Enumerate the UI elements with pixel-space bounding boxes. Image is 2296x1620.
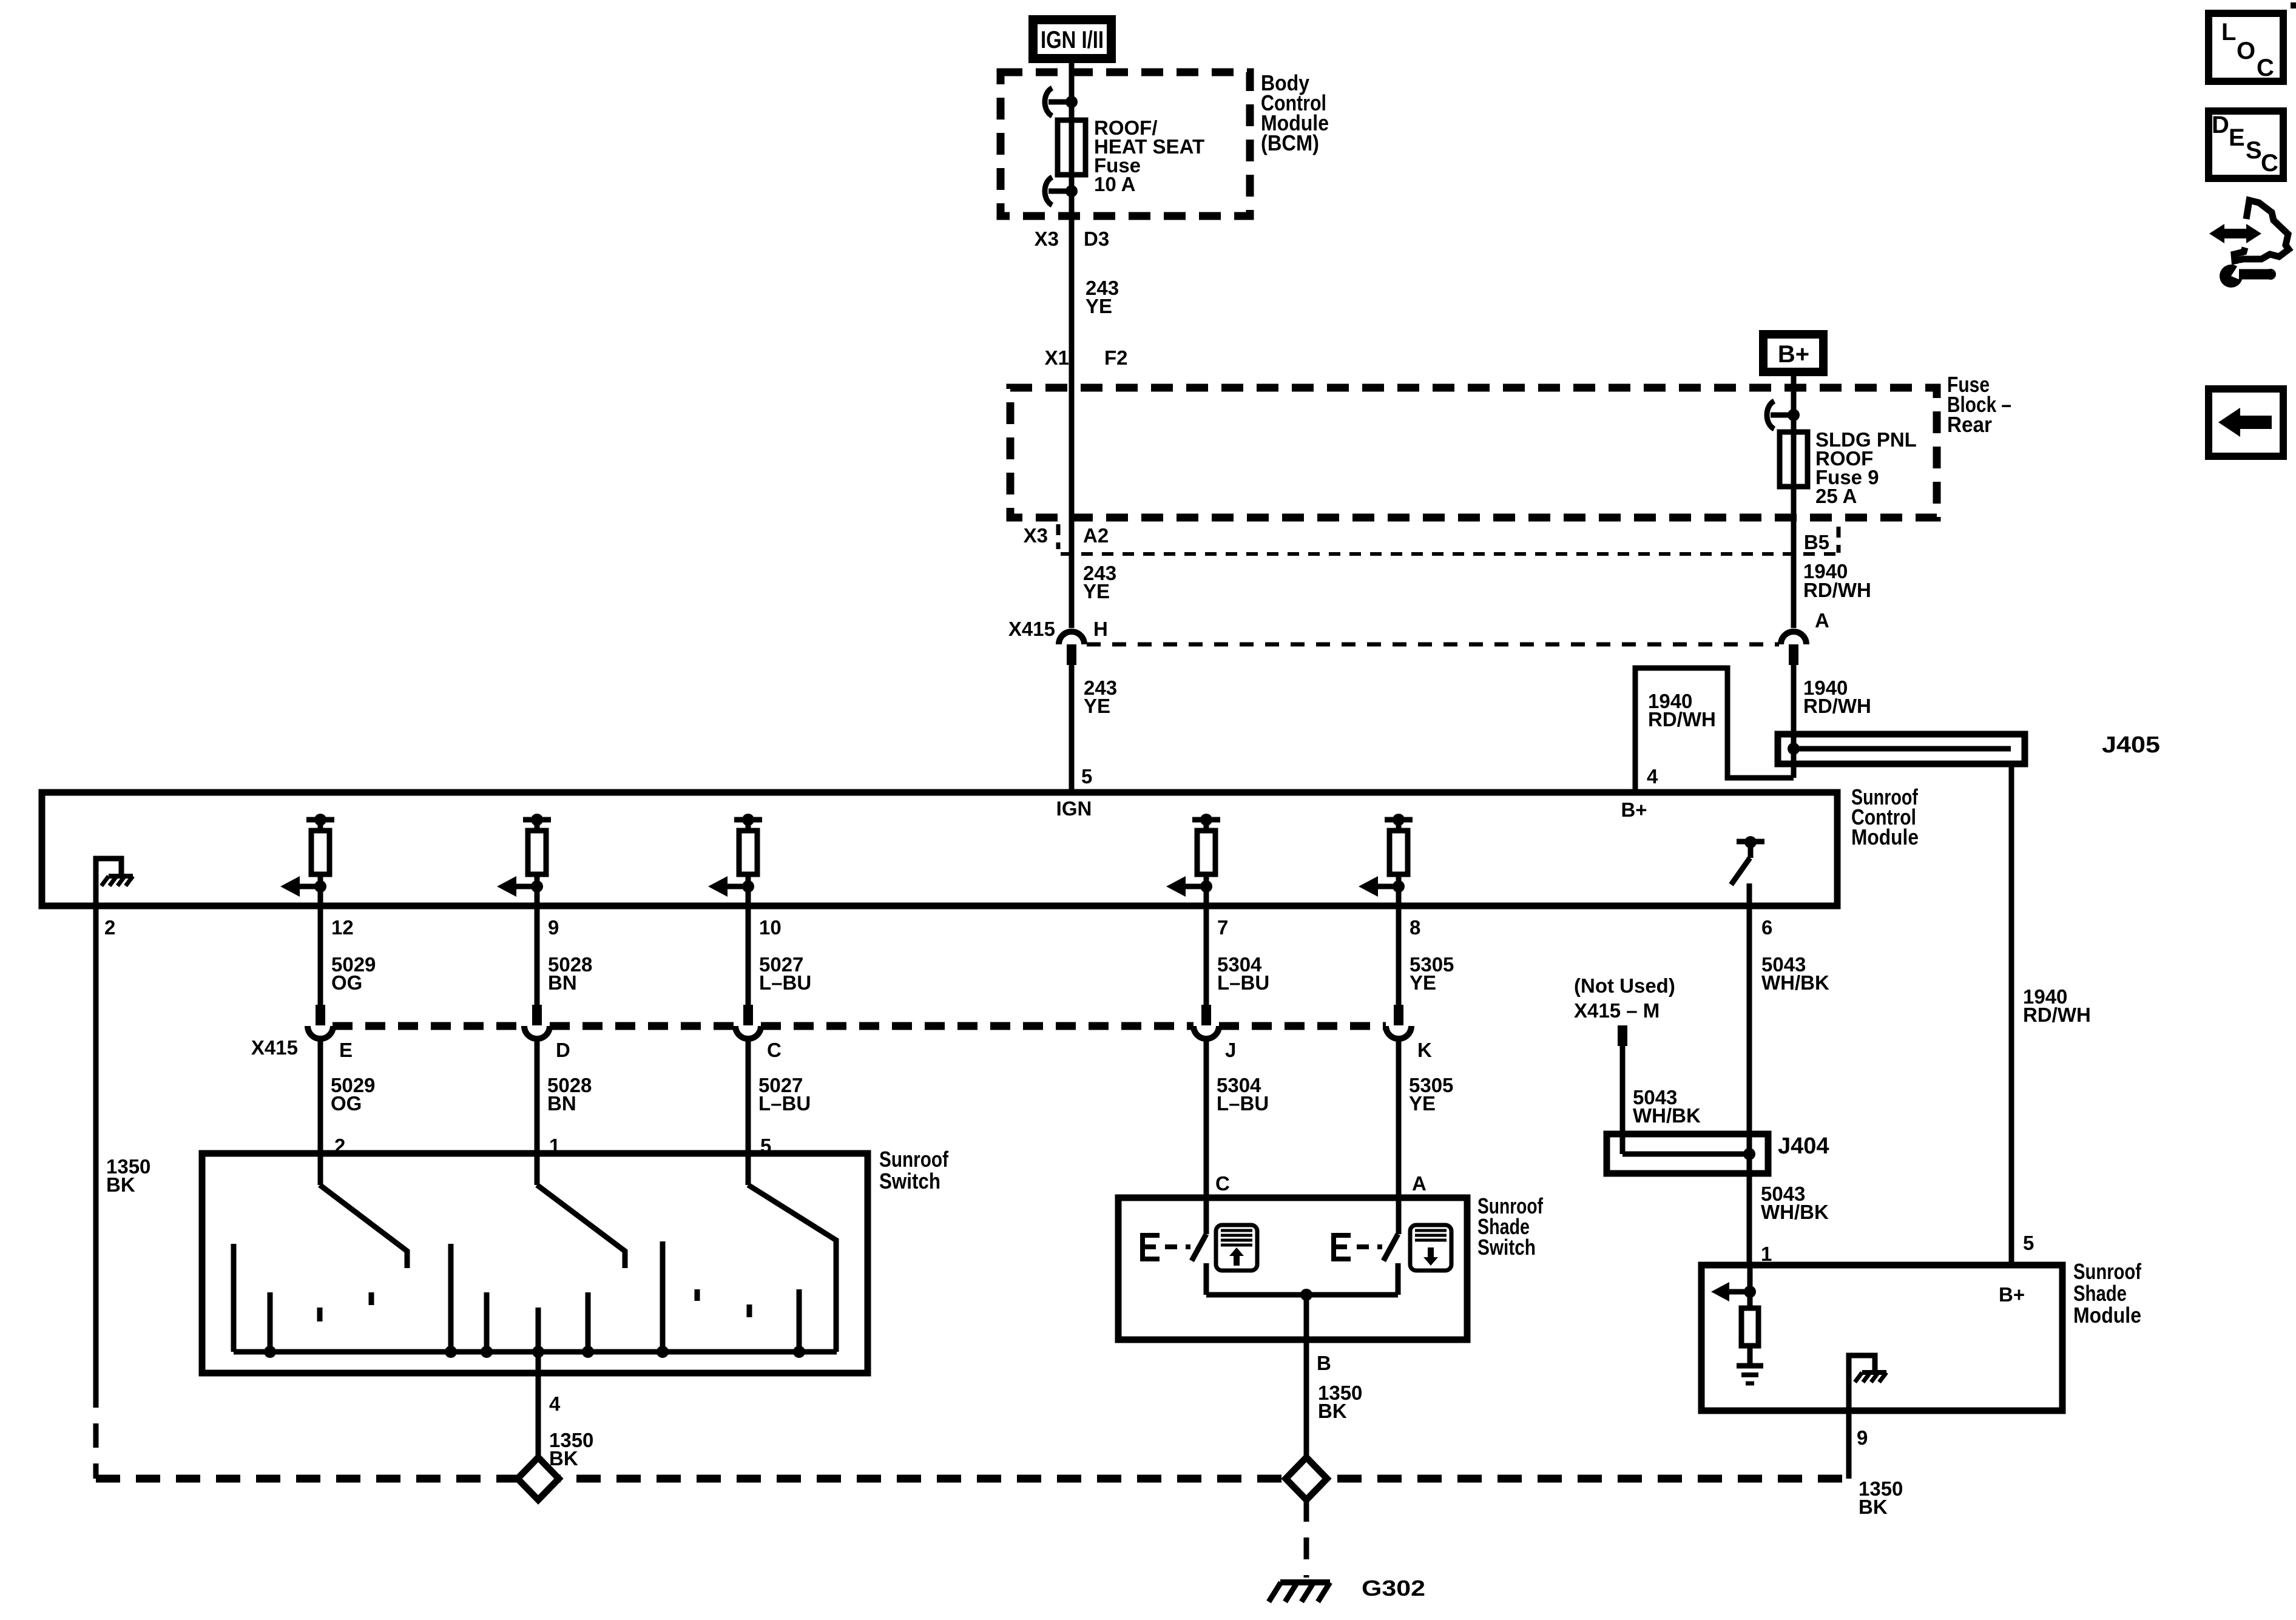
shade switch contact C	[1204, 1263, 1209, 1295]
svg-text:BN: BN	[548, 971, 577, 994]
wire 243 YE below fuse	[1069, 175, 1075, 628]
svg-text:YE: YE	[1410, 971, 1436, 994]
X415 upper dashed line	[1087, 643, 1779, 647]
sunroof switch box	[202, 1153, 868, 1373]
svg-text:YE: YE	[1083, 580, 1110, 602]
svg-text:(BCM): (BCM)	[1261, 130, 1319, 155]
svg-text:F2: F2	[1104, 346, 1128, 369]
dashed wire to G302	[1304, 1500, 1309, 1578]
wire 5305 YE lower	[1396, 1039, 1402, 1234]
svg-text:O: O	[2237, 38, 2255, 64]
svg-text:BK: BK	[549, 1447, 578, 1470]
svg-text:12: 12	[331, 916, 354, 939]
svg-text:OG: OG	[331, 1092, 362, 1115]
svg-text:RD/WH: RD/WH	[1803, 695, 1871, 717]
X3 inline connector dashed line	[1061, 552, 1838, 556]
svg-text:9: 9	[1857, 1426, 1868, 1449]
driver output pin 10	[734, 817, 762, 823]
svg-text:WH/BK: WH/BK	[1761, 1201, 1829, 1223]
svg-text:A: A	[1412, 1172, 1427, 1195]
sunroof shade module box	[1701, 1265, 2062, 1411]
svg-text:BK: BK	[1318, 1400, 1347, 1422]
LOC reference box	[2209, 13, 2283, 81]
svg-text:B+: B+	[1999, 1283, 2025, 1306]
ground G302 symbol	[1280, 1579, 1330, 1585]
connector dome A	[1781, 632, 1806, 644]
fuse clip bottom	[1045, 177, 1052, 205]
BCM dashed box	[1001, 72, 1250, 216]
svg-text:J404: J404	[1778, 1133, 1829, 1159]
svg-text:4: 4	[549, 1392, 561, 1415]
svg-text:BK: BK	[1859, 1496, 1888, 1518]
svg-text:7: 7	[1217, 916, 1228, 939]
svg-text:Module: Module	[1851, 825, 1919, 849]
component outline icon	[2234, 200, 2289, 261]
svg-text:YE: YE	[1084, 695, 1110, 717]
fuse clip top	[1045, 88, 1052, 116]
shade switch contact A	[1396, 1263, 1401, 1295]
J404 connector box	[1607, 1134, 1768, 1173]
svg-text:4: 4	[1647, 765, 1658, 788]
shade switch lever C	[1192, 1234, 1206, 1261]
wire 5027 L–BU lower	[746, 1039, 751, 1185]
svg-text:L–BU: L–BU	[758, 1092, 811, 1115]
svg-text:10: 10	[759, 916, 782, 939]
wire 5028 BN upper	[535, 886, 540, 1005]
wire 243 YE to module pin 5	[1069, 664, 1075, 794]
svg-text:RD/WH: RD/WH	[1803, 579, 1871, 601]
switch fixed contacts	[231, 1244, 237, 1352]
svg-text:YE: YE	[1409, 1092, 1436, 1115]
connector pin H	[1067, 644, 1076, 665]
J405 connector box	[1778, 734, 2025, 764]
svg-text:X3: X3	[1035, 228, 1059, 250]
svg-text:25 A: 25 A	[1815, 485, 1857, 507]
svg-text:J: J	[1225, 1039, 1236, 1061]
splice dot J405	[1788, 743, 1800, 755]
wire 1350 BK pin 9	[1846, 1411, 1852, 1479]
svg-text:C: C	[2257, 55, 2274, 81]
svg-text:Sunroof: Sunroof	[2073, 1259, 2142, 1284]
driver output pin 12	[306, 817, 334, 823]
driver output pin 7	[1192, 817, 1220, 823]
DESC reference box	[2209, 111, 2283, 178]
ground distribution dashed wire 1350 BK	[96, 1475, 1845, 1483]
svg-text:L: L	[2221, 19, 2236, 46]
svg-text:RD/WH: RD/WH	[2023, 1004, 2091, 1026]
wire 1940 RD/WH right branch	[2009, 764, 2014, 1268]
wire 1350 BK pin B	[1304, 1295, 1309, 1458]
svg-text:RD/WH: RD/WH	[1648, 708, 1716, 731]
svg-text:10 A: 10 A	[1094, 173, 1135, 195]
wire 5029 OG upper	[318, 886, 323, 1005]
X415 lower dashed line	[333, 1022, 524, 1030]
wire 5043 WH/BK stub	[1620, 1045, 1626, 1154]
fuse clip sldg	[1767, 401, 1774, 429]
svg-text:E: E	[339, 1039, 353, 1061]
svg-text:IGN I/II: IGN I/II	[1041, 27, 1104, 53]
wire 5304 L–BU lower	[1204, 1039, 1209, 1234]
svg-text:2: 2	[104, 916, 115, 939]
svg-text:8: 8	[1410, 916, 1420, 939]
svg-text:C: C	[1215, 1172, 1230, 1195]
svg-text:K: K	[1417, 1039, 1432, 1061]
svg-text:1: 1	[1761, 1243, 1772, 1265]
driver output pin 8	[1385, 817, 1413, 823]
svg-text:C: C	[767, 1039, 782, 1061]
svg-text:YE: YE	[1086, 295, 1112, 317]
wire 5027 L–BU upper	[746, 886, 751, 1005]
connector pin A	[1789, 644, 1798, 665]
switch lever pin 2	[320, 1185, 407, 1268]
svg-text:5: 5	[1081, 765, 1092, 788]
wire 1940 RD/WH to J405	[1791, 664, 1797, 778]
sunroof shade switch box	[1118, 1198, 1467, 1340]
svg-text:X415 – M: X415 – M	[1574, 999, 1660, 1022]
switch lever pin 1	[537, 1185, 625, 1268]
X415 pin D	[532, 1005, 542, 1025]
actuator symbol E right	[1334, 1235, 1351, 1259]
svg-text:B+: B+	[1621, 798, 1647, 821]
svg-text:G302: G302	[1362, 1576, 1425, 1601]
X415 pin J	[1201, 1005, 1211, 1025]
wire 5028 BN lower	[535, 1039, 540, 1185]
svg-text:B: B	[1317, 1352, 1331, 1374]
connector dome H	[1059, 632, 1084, 644]
svg-text:J405: J405	[2102, 732, 2160, 758]
shade switch bus dot	[1300, 1289, 1312, 1301]
svg-text:9: 9	[548, 916, 559, 939]
svg-text:D3: D3	[1084, 228, 1109, 250]
back arrow box	[2209, 389, 2283, 456]
switch lever pin 5	[748, 1185, 836, 1352]
svg-text:X1: X1	[1045, 346, 1069, 369]
wire B+ loop to module pin 4	[1635, 668, 1794, 794]
splice S2 diamond	[1286, 1457, 1327, 1500]
svg-text:X415: X415	[1008, 618, 1055, 640]
svg-text:L–BU: L–BU	[759, 971, 811, 994]
X415 pin M	[1618, 1025, 1627, 1046]
svg-text:D: D	[556, 1039, 570, 1061]
svg-text:Shade: Shade	[2073, 1281, 2127, 1306]
svg-text:Switch: Switch	[1477, 1235, 1536, 1260]
svg-text:L–BU: L–BU	[1217, 971, 1269, 994]
shade open icon	[1216, 1225, 1257, 1271]
wire 243 YE from IGN to fuse	[1069, 63, 1075, 121]
shade close icon	[1410, 1225, 1451, 1271]
svg-text:BK: BK	[106, 1173, 135, 1196]
actuator symbol E left	[1143, 1235, 1160, 1259]
svg-text:Module: Module	[2073, 1303, 2141, 1328]
power feed box IGN I/II	[1028, 15, 1116, 63]
wire 5304 L–BU upper	[1204, 886, 1209, 1005]
svg-text:B+: B+	[1778, 341, 1809, 368]
svg-text:Switch: Switch	[879, 1169, 940, 1193]
svg-text:X415: X415	[251, 1036, 298, 1059]
shade switch lever A	[1383, 1234, 1398, 1261]
J404 splice dot	[1743, 1148, 1755, 1160]
wire 5029 OG lower	[318, 1039, 323, 1185]
svg-text:Sunroof: Sunroof	[879, 1147, 949, 1172]
svg-text:L–BU: L–BU	[1217, 1092, 1269, 1115]
svg-text:BN: BN	[547, 1092, 576, 1115]
svg-text:A2: A2	[1083, 524, 1109, 547]
svg-text:E: E	[2229, 124, 2245, 151]
svg-text:B5: B5	[1804, 531, 1829, 553]
wire 1350 BK pin 2 solid	[93, 908, 99, 1383]
wire 1350 BK pin 2 dashed	[93, 1383, 99, 1479]
fuse block rear dashed box	[1010, 388, 1937, 518]
X415 pin C	[743, 1005, 753, 1025]
wire 1350 BK pin 4	[536, 1308, 541, 1458]
svg-text:(Not Used): (Not Used)	[1574, 974, 1675, 997]
corner mark	[2291, 2, 2296, 8]
double arrow icon	[2221, 229, 2250, 238]
shade switch common bus	[1206, 1292, 1398, 1298]
switch symbol pin 6	[1737, 839, 1764, 845]
shade module driver pin 1	[1744, 1286, 1756, 1298]
switch bus junction dots	[264, 1346, 276, 1358]
shade module internal ground	[1849, 1355, 1875, 1411]
svg-text:X3: X3	[1024, 524, 1048, 547]
svg-text:WH/BK: WH/BK	[1633, 1104, 1701, 1127]
wire 5305 YE upper	[1396, 886, 1402, 1005]
X415 pin E	[316, 1005, 325, 1025]
wire 1940 RD/WH from B+	[1791, 376, 1797, 432]
wrench icon	[2220, 265, 2243, 288]
splice S1 diamond	[518, 1457, 559, 1500]
wire 5043 WH/BK pin 6	[1747, 883, 1752, 1268]
svg-text:C: C	[2261, 150, 2278, 177]
svg-text:H: H	[1093, 618, 1108, 640]
fuse ROOF/HEAT SEAT	[1058, 120, 1086, 175]
svg-text:A: A	[1815, 609, 1829, 632]
earth ground symbol	[1737, 1363, 1763, 1369]
power feed box B+	[1759, 330, 1828, 376]
svg-text:IGN: IGN	[1056, 797, 1092, 820]
svg-text:5: 5	[2023, 1232, 2034, 1254]
svg-text:6: 6	[1761, 916, 1772, 939]
svg-text:WH/BK: WH/BK	[1761, 971, 1829, 994]
wire 1940 RD/WH below fuse	[1791, 483, 1797, 628]
driver output pin 9	[523, 817, 551, 823]
switch common bus	[234, 1349, 837, 1355]
fuse SLDG PNL ROOF	[1780, 432, 1808, 487]
svg-text:Rear: Rear	[1947, 412, 1992, 437]
internal ground pin 2	[96, 859, 121, 908]
svg-text:S: S	[2246, 137, 2262, 164]
sunroof control module box	[42, 792, 1837, 906]
svg-text:D: D	[2212, 112, 2229, 138]
svg-text:OG: OG	[331, 971, 362, 994]
X415 pin K	[1394, 1005, 1403, 1025]
